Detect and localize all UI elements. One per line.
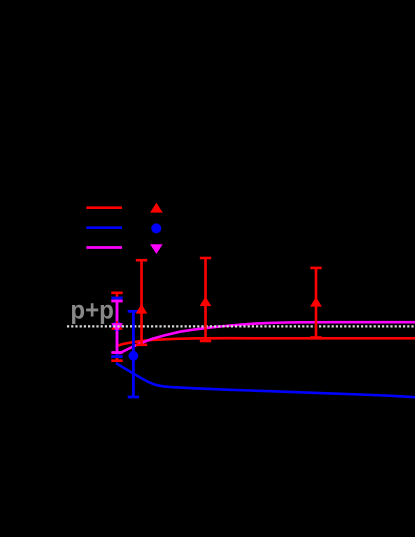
svg-text:p+p: p+p (70, 295, 114, 325)
